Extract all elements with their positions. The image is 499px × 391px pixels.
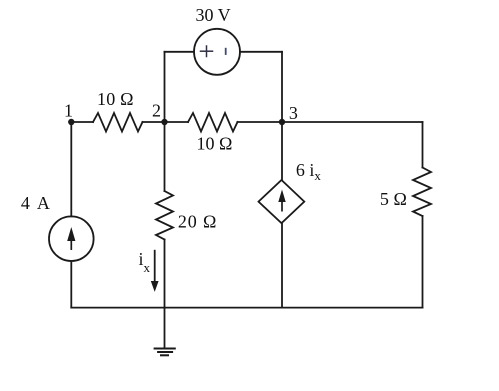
svg-text:10 Ω: 10 Ω — [197, 134, 233, 154]
svg-text:1: 1 — [64, 101, 73, 121]
svg-text:10 Ω: 10 Ω — [97, 89, 134, 109]
wire right vertical down to 5Ω — [422, 122, 424, 168]
wire node1 to R1 — [71, 121, 93, 123]
wire dependent source bottom to bottom rail — [281, 223, 283, 307]
svg-text:6 ix: 6 ix — [296, 160, 322, 183]
wire top-left vertical (top rail down to node 2) — [164, 52, 166, 122]
resistor R1 10Ω zigzag — [93, 113, 143, 132]
resistor R2 10Ω zigzag — [188, 113, 238, 132]
wire R1 to node2 — [143, 121, 165, 123]
wire top rail right (30V source to node3 top) — [240, 51, 282, 53]
current ix arrow — [151, 251, 159, 292]
svg-text:ix: ix — [139, 249, 151, 275]
resistor R4 5Ω zigzag — [413, 168, 431, 217]
wire R2 to node3 — [238, 121, 283, 123]
wire 20Ω down to bottom rail — [164, 240, 166, 308]
svg-text:20 Ω: 20 Ω — [178, 211, 217, 231]
wire node3 down to dependent source — [281, 122, 283, 180]
current source I1 arrow — [67, 227, 75, 250]
resistor R3 20Ω zigzag — [156, 191, 173, 240]
wire top rail left (node2 top to 30V source) — [165, 51, 195, 53]
svg-text:30 V: 30 V — [196, 5, 231, 25]
voltage source V1 plus sign — [201, 46, 213, 57]
wire 4A source bottom to bottom rail — [70, 261, 72, 308]
node 3 dot — [279, 119, 285, 125]
node 2 dot — [161, 119, 167, 125]
wire 5Ω down to bottom rail — [422, 216, 424, 308]
wire left vertical node1 down to 4A source — [70, 122, 72, 216]
svg-text:5 Ω: 5 Ω — [380, 189, 407, 209]
svg-text:4 A: 4 A — [21, 193, 50, 213]
svg-text:3: 3 — [289, 103, 298, 123]
node 1 dot — [68, 119, 74, 125]
wire top-right vertical (top rail down to node 3) — [281, 52, 283, 122]
voltage source V1 minus tick — [225, 49, 227, 54]
dependent current source 6ix arrow — [278, 190, 285, 212]
wire node3 to right branch top — [282, 121, 423, 123]
wire bottom rail — [71, 307, 422, 309]
voltage source V1 30V circle — [194, 29, 240, 75]
dependent current source 6ix diamond — [259, 180, 305, 223]
wire node2 down to 20Ω — [164, 122, 166, 191]
current source I1 4A circle — [49, 216, 94, 261]
wire node2 to R2 — [165, 121, 189, 123]
ground — [155, 308, 175, 356]
svg-text:2: 2 — [152, 101, 161, 121]
